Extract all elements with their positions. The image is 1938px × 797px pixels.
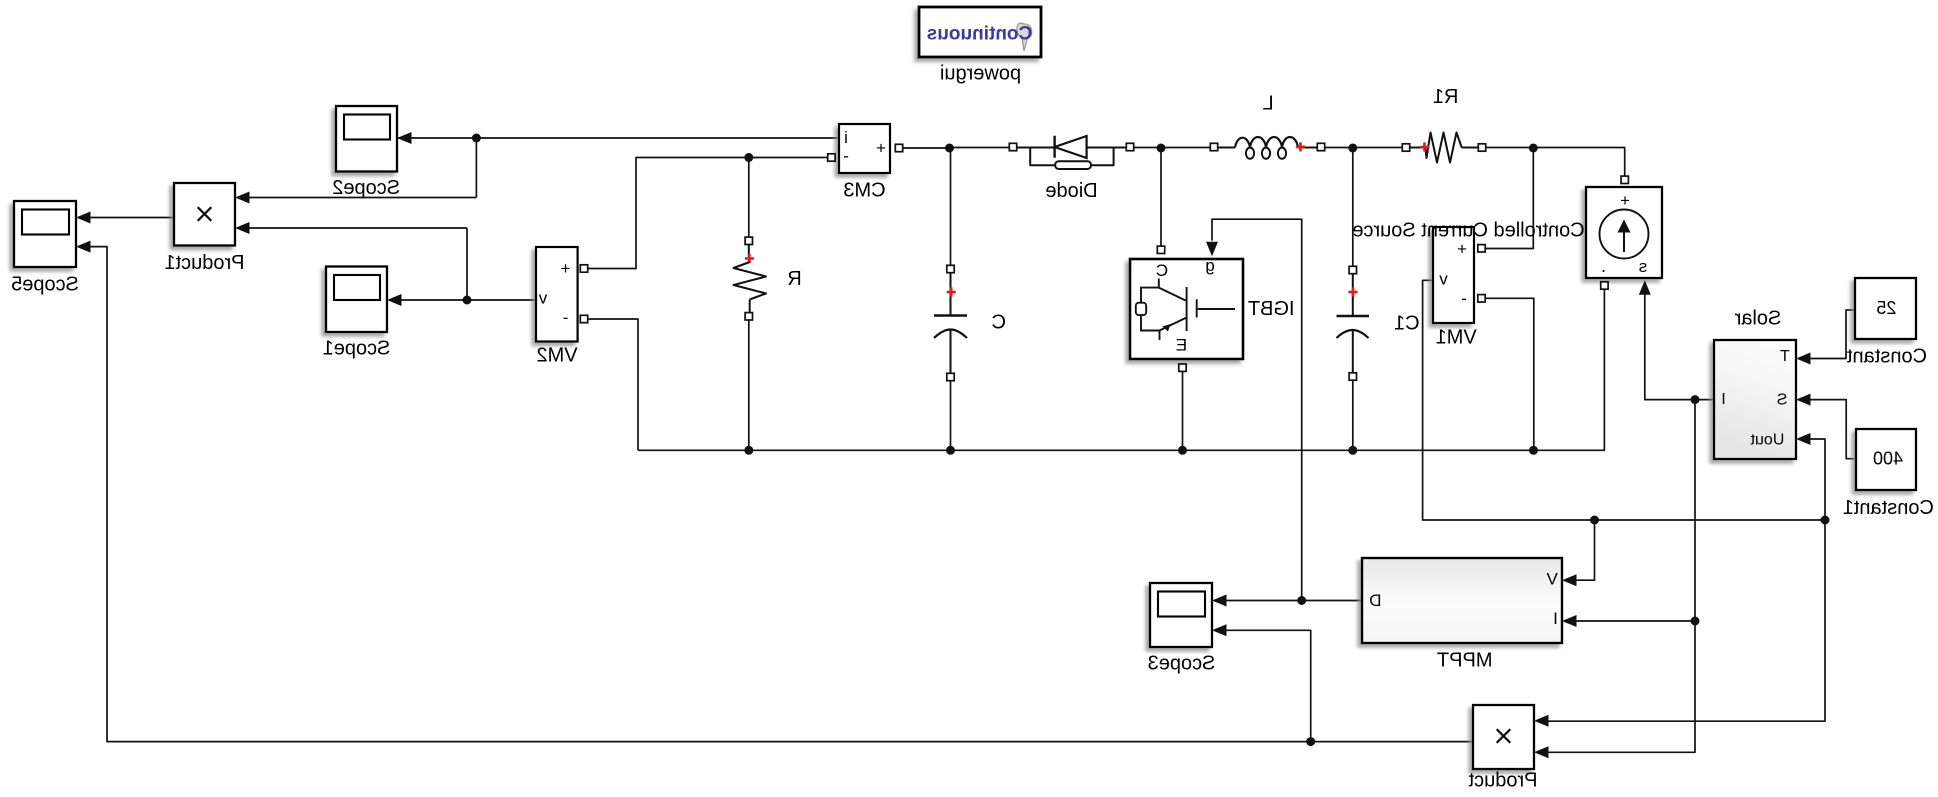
- wire - capacitor C1 bottom to ground bus: [1352, 380, 1354, 450]
- wire - CCS control arrow: [1639, 280, 1651, 295]
- svg-text:I: I: [1721, 391, 1725, 408]
- wire - IGBT collector drop: [1160, 148, 1162, 246]
- svg-text:CM3: CM3: [843, 179, 885, 201]
- svg-text:Continuous: Continuous: [927, 24, 1033, 45]
- wire - VM2 v output to Scope1: [391, 299, 536, 301]
- port R1 left: [1478, 144, 1485, 151]
- svg-text:Scope3: Scope3: [1148, 653, 1216, 675]
- wire - capacitor C1 top lead: [1352, 148, 1354, 266]
- svg-text:-: -: [563, 308, 569, 327]
- node - junction I bus: [1691, 395, 1700, 404]
- inductor L: [1298, 147, 1318, 149]
- svg-text:S: S: [1777, 392, 1788, 409]
- svg-text:C1: C1: [1394, 313, 1420, 335]
- svg-text:C: C: [1156, 261, 1168, 280]
- wire - I bus to MPPT I input: [1566, 620, 1695, 622]
- scope Scope3: [1150, 583, 1212, 647]
- svg-text:MPPT: MPPT: [1437, 649, 1493, 671]
- node - junction feedback bus / Scope3: [1306, 737, 1315, 746]
- port Diode anode: [1126, 143, 1133, 150]
- wire - Scope3 input 2 from P feedback bus: [1216, 630, 1311, 741]
- resistor R (vertical): [748, 244, 750, 263]
- capacitor C (vertical): [950, 273, 952, 316]
- port CCS -: [1601, 282, 1608, 289]
- port CCS +: [1621, 176, 1628, 183]
- wire - top rail to Controlled Current Source + terminal: [1533, 148, 1624, 176]
- svg-text:Constant: Constant: [1847, 345, 1927, 367]
- wire - top rail: C node to Diode cathode: [950, 147, 1010, 149]
- block Constant1 (400): [1856, 429, 1916, 490]
- wire - IGBT gate arrow: [1206, 242, 1218, 257]
- port Diode cathode: [1009, 143, 1016, 150]
- wire - branch up from v net to Product1 input 2: [466, 228, 468, 300]
- node - junction capacitor C1 top: [1348, 144, 1357, 153]
- svg-text:Product: Product: [1468, 770, 1537, 792]
- wire - VM1 v output to V measurement bus: [1423, 280, 1825, 520]
- wire - V bus down to Product input 1: [1538, 520, 1825, 721]
- capacitor C1 (vertical): [1352, 274, 1354, 316]
- node - junction ground bus IGBT E: [1178, 446, 1187, 455]
- wire - resistor R top lead to node: [748, 158, 750, 238]
- wire - top rail: inductor L left lead to C1 node: [1325, 147, 1353, 149]
- wire - V bus down to MPPT V input: [1566, 520, 1595, 580]
- svg-text:Product1: Product1: [164, 252, 244, 274]
- svg-text:-: -: [1461, 289, 1467, 308]
- wire - Product1 output to Scope5 input 1: [80, 217, 174, 219]
- port CM3 -: [828, 154, 835, 161]
- svg-text:V: V: [1546, 570, 1558, 589]
- port L left: [1317, 143, 1324, 150]
- resistor R1 (horizontal): [1425, 133, 1461, 163]
- wire - capacitor C top lead: [950, 148, 952, 266]
- wire - ground bus: [638, 449, 1534, 451]
- port IGBT E: [1179, 364, 1186, 371]
- wire - Constant 25 to Solar T input: [1800, 310, 1855, 359]
- svg-text:Scope2: Scope2: [332, 177, 400, 199]
- svg-text:25: 25: [1876, 298, 1896, 318]
- wire - top rail: Diode anode to IGBT collector node: [1134, 147, 1161, 149]
- svg-text:+: +: [560, 259, 570, 278]
- node - junction V bus / Solar Uout / Product: [1821, 516, 1830, 525]
- port VM1 +: [1478, 245, 1485, 252]
- wire - ground bus extension to CCS - terminal: [1534, 289, 1605, 450]
- wire - V bus up to Solar Uout input: [1800, 439, 1825, 520]
- wire - top rail: R1 to VM1 branch node: [1486, 147, 1534, 149]
- wire - I bus down to MPPT I input: [1694, 400, 1696, 621]
- port VM2 +: [580, 265, 587, 272]
- svg-text:v: v: [538, 289, 547, 308]
- wire - I bus down to Product input 2: [1538, 621, 1695, 752]
- scope Scope5: [14, 201, 76, 267]
- svg-text:-: -: [843, 147, 849, 166]
- diode Diode with snubber: [1087, 147, 1127, 149]
- wire - capacitor C bottom to ground bus: [950, 381, 952, 451]
- wire - IGBT gate signal from MPPT D: [1212, 219, 1302, 600]
- wire - MPPT D output to Scope3 input 1: [1216, 600, 1362, 602]
- wire - VM2 - to ground bus: [584, 319, 638, 450]
- icon powergui pin: [1017, 23, 1032, 51]
- block Product1 (multiplier): [174, 183, 235, 246]
- svg-text:Uout: Uout: [1750, 432, 1784, 449]
- svg-text:VM2: VM2: [536, 345, 577, 367]
- wire - top rail: C1 node to resistor R1: [1353, 147, 1403, 149]
- block Product (multiplier): [1473, 705, 1534, 769]
- node - junction capacitor C top: [945, 144, 954, 153]
- svg-text:400: 400: [1873, 449, 1903, 469]
- port VM2 -: [580, 315, 587, 322]
- node - junction ground bus R: [744, 446, 753, 455]
- wire - VM2 + to CM3 - terminal: [584, 158, 828, 269]
- block VM1 voltage measurement: [1433, 227, 1474, 323]
- port R1 right: [1402, 144, 1409, 151]
- svg-text:+: +: [876, 139, 886, 158]
- svg-text:powergui: powergui: [940, 63, 1021, 85]
- wire - CM3 + terminal to top rail: [903, 147, 950, 149]
- svg-text:D: D: [1369, 591, 1381, 610]
- block VM2 voltage measurement: [536, 247, 578, 342]
- node - junction gate/Scope3 branch: [1297, 596, 1306, 605]
- node - junction i-net branch: [472, 134, 481, 143]
- wire - IGBT emitter to ground bus: [1182, 371, 1184, 450]
- svg-text:+: +: [1457, 240, 1467, 259]
- svg-text:Diode: Diode: [1045, 180, 1097, 202]
- wire - branch down from i net to Product1 input 1: [475, 138, 477, 198]
- port IGBT C: [1157, 246, 1164, 253]
- block Solar subsystem: [1714, 340, 1796, 459]
- svg-text:VM1: VM1: [1436, 327, 1477, 349]
- wire - VM1 - down to ground bus: [1482, 298, 1534, 450]
- svg-text:i: i: [844, 128, 848, 147]
- block CM3 current measurement: [839, 124, 890, 173]
- svg-text:+: +: [1620, 191, 1630, 210]
- node - junction R top: [744, 153, 753, 162]
- block powergui (Continuous): [919, 7, 1041, 57]
- node - junction V bus / MPPT V: [1590, 516, 1599, 525]
- node - junction v-net branch: [463, 296, 472, 305]
- svg-text:R: R: [787, 268, 801, 290]
- svg-text:g: g: [1205, 256, 1214, 275]
- block Constant (25): [1855, 278, 1916, 339]
- source Controlled Current Source: [1586, 187, 1662, 278]
- svg-text:L: L: [1262, 93, 1273, 115]
- scope Scope1: [326, 267, 387, 333]
- svg-text:E: E: [1176, 336, 1187, 355]
- node - junction ground bus / VM1 -: [1529, 446, 1538, 455]
- wire - power feedback bus from Product output to Scope5 input 2: [80, 247, 1473, 742]
- svg-text:IGBT: IGBT: [1248, 298, 1295, 320]
- wire - top rail: collector node to inductor L right lead: [1161, 147, 1210, 149]
- block MPPT subsystem: [1362, 558, 1562, 643]
- svg-text:I: I: [1553, 609, 1558, 628]
- node - junction IGBT collector: [1157, 144, 1166, 153]
- svg-text:s: s: [1639, 257, 1648, 276]
- svg-text:Constant1: Constant1: [1843, 497, 1934, 519]
- wire - Constant1 400 to Solar S input: [1800, 400, 1856, 459]
- node - junction ground bus C1: [1348, 446, 1357, 455]
- svg-text:Scope1: Scope1: [323, 338, 391, 360]
- transistor IGBT block: [1130, 259, 1243, 359]
- svg-text:C: C: [992, 312, 1006, 334]
- svg-text:.: .: [1601, 256, 1606, 276]
- wire - Solar I output to CCS control input: [1645, 284, 1714, 400]
- svg-text:T: T: [1780, 348, 1790, 365]
- wire - branch down to VM1 +: [1482, 148, 1534, 249]
- port L right: [1210, 143, 1217, 150]
- wire - CM3 i output to Scope2 (net i_L): [397, 137, 839, 139]
- svg-text:Controlled Current Source: Controlled Current Source: [1352, 220, 1584, 242]
- svg-text:Solar: Solar: [1734, 308, 1781, 330]
- port VM1 -: [1478, 295, 1485, 302]
- node - junction ground bus C: [946, 446, 955, 455]
- port CM3 +: [895, 144, 902, 151]
- node - junction I bus / MPPT I: [1691, 617, 1700, 626]
- scope Scope2: [336, 106, 397, 172]
- node - junction VM1 + branch: [1529, 144, 1538, 153]
- svg-text:R1: R1: [1433, 86, 1459, 108]
- svg-text:Scope5: Scope5: [11, 274, 79, 296]
- svg-text:v: v: [1439, 270, 1448, 289]
- icon IGBT internal symbol: [1141, 279, 1235, 341]
- wire - R bottom to ground bus: [748, 320, 750, 450]
